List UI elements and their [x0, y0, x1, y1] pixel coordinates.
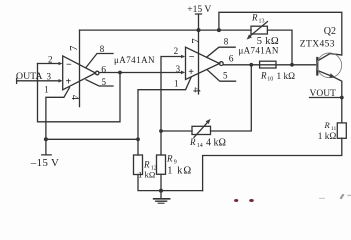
svg-text:+15 V: +15 V — [187, 4, 211, 15]
svg-text:8: 8 — [100, 44, 105, 54]
svg-text:Q2: Q2 — [324, 26, 336, 37]
svg-text:μA741AN: μA741AN — [114, 55, 155, 65]
svg-text:R: R — [166, 154, 173, 164]
svg-text:VOUT: VOUT — [310, 89, 337, 99]
svg-text:2: 2 — [48, 55, 53, 65]
svg-text:R: R — [251, 13, 258, 23]
svg-text:+: + — [188, 67, 194, 78]
svg-text:2: 2 — [174, 46, 179, 56]
svg-text:5: 5 — [223, 71, 228, 81]
svg-text:4: 4 — [191, 87, 202, 93]
svg-text:1: 1 — [44, 85, 49, 95]
svg-text:1 kΩ: 1 kΩ — [318, 132, 337, 142]
svg-text:14: 14 — [197, 143, 203, 149]
svg-text:3: 3 — [176, 64, 181, 74]
svg-text:7: 7 — [68, 45, 80, 51]
svg-text:−: − — [189, 52, 195, 63]
svg-text:4: 4 — [69, 95, 80, 101]
svg-text:ZTX453: ZTX453 — [300, 40, 335, 50]
svg-text:1 kΩ: 1 kΩ — [277, 72, 296, 82]
svg-text:1: 1 — [174, 78, 179, 88]
svg-text:OUTA: OUTA — [16, 71, 42, 82]
svg-text:13: 13 — [259, 19, 265, 25]
svg-text:3: 3 — [47, 72, 52, 82]
svg-text:μA741AN: μA741AN — [239, 46, 279, 56]
svg-text:8: 8 — [224, 37, 229, 47]
svg-text:5: 5 — [102, 77, 107, 87]
svg-text:+: + — [66, 77, 72, 88]
svg-text:−: − — [66, 60, 72, 71]
svg-text:–15 V: –15 V — [30, 157, 60, 169]
svg-text:R: R — [143, 160, 150, 170]
svg-text:1 kΩ: 1 kΩ — [167, 166, 192, 177]
svg-text:4 kΩ: 4 kΩ — [206, 138, 226, 149]
svg-text:R: R — [324, 120, 331, 130]
svg-text:6: 6 — [229, 55, 234, 65]
svg-text:R: R — [260, 71, 267, 81]
svg-text:1 kΩ: 1 kΩ — [138, 170, 155, 180]
svg-text:6: 6 — [101, 65, 106, 75]
svg-text:R: R — [189, 137, 196, 147]
svg-text:10: 10 — [267, 77, 273, 83]
svg-text:7: 7 — [190, 38, 202, 44]
svg-text:9: 9 — [174, 160, 177, 166]
